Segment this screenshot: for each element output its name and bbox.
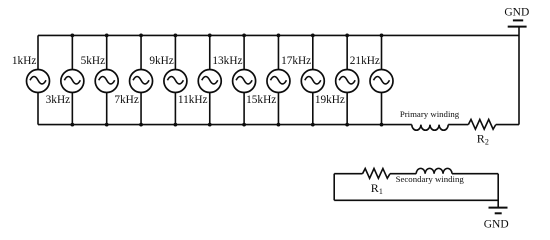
svg-text:13kHz: 13kHz bbox=[212, 55, 242, 67]
svg-text:3kHz: 3kHz bbox=[46, 94, 70, 106]
junction dot bottom rail V11 bbox=[380, 123, 384, 127]
AC source V2 (3kHz) bbox=[61, 35, 84, 124]
wire R2 to corner bbox=[496, 124, 519, 126]
junction dot top rail V7 bbox=[242, 34, 246, 38]
resistor R2 bbox=[468, 119, 496, 129]
svg-text:1kHz: 1kHz bbox=[12, 55, 36, 67]
svg-text:7kHz: 7kHz bbox=[114, 94, 138, 106]
AC source V4 (7kHz) bbox=[130, 35, 153, 124]
AC source V8 (15kHz) bbox=[267, 35, 290, 124]
svg-text:R2: R2 bbox=[477, 131, 489, 146]
svg-text:Secondary winding: Secondary winding bbox=[396, 174, 465, 184]
junction dot top rail V5 bbox=[174, 34, 178, 38]
junction dot bottom rail V6 bbox=[208, 123, 212, 127]
wire right vertical bbox=[518, 27, 520, 125]
junction dot bottom rail V3 bbox=[105, 123, 109, 127]
AC source V7 (13kHz) bbox=[233, 35, 256, 124]
AC source V11 (21kHz) bbox=[370, 35, 393, 124]
svg-text:17kHz: 17kHz bbox=[281, 55, 311, 67]
junction dot top rail V3 bbox=[105, 34, 109, 38]
wire top rail bbox=[38, 34, 519, 36]
svg-text:15kHz: 15kHz bbox=[246, 94, 276, 106]
svg-text:21kHz: 21kHz bbox=[350, 55, 380, 67]
svg-text:GND: GND bbox=[484, 219, 509, 231]
wire L2 to loop right bbox=[452, 173, 498, 175]
junction dot bottom rail V7 bbox=[242, 123, 246, 127]
AC source V10 (19kHz) bbox=[336, 35, 359, 124]
inductor L2 secondary winding bbox=[416, 168, 452, 173]
resistor R1 bbox=[363, 169, 391, 179]
svg-text:Primary winding: Primary winding bbox=[400, 109, 460, 119]
junction dot bottom rail V8 bbox=[277, 123, 281, 127]
svg-text:GND: GND bbox=[504, 6, 529, 18]
AC source V6 (11kHz) bbox=[198, 35, 221, 124]
junction dot bottom rail V5 bbox=[174, 123, 178, 127]
junction dot top rail V11 bbox=[380, 34, 384, 38]
junction dot top rail V8 bbox=[277, 34, 281, 38]
junction dot bottom rail V9 bbox=[311, 123, 315, 127]
ground bottom bbox=[489, 208, 508, 214]
junction dot bottom rail V2 bbox=[70, 123, 74, 127]
svg-text:9kHz: 9kHz bbox=[149, 55, 173, 67]
inductor L1 primary winding bbox=[412, 125, 448, 131]
junction dot top rail V2 bbox=[70, 34, 74, 38]
junction dot top rail V10 bbox=[345, 34, 349, 38]
wire R1 to L2 bbox=[390, 173, 416, 175]
AC source V5 (9kHz) bbox=[164, 35, 187, 124]
svg-text:19kHz: 19kHz bbox=[315, 94, 345, 106]
junction dot bottom rail V10 bbox=[345, 123, 349, 127]
junction dot top rail V9 bbox=[311, 34, 315, 38]
wire bottom rail bbox=[38, 124, 412, 126]
AC source V9 (17kHz) bbox=[301, 35, 324, 124]
AC source V3 (5kHz) bbox=[95, 35, 118, 124]
junction dot bottom rail V4 bbox=[139, 123, 143, 127]
svg-text:11kHz: 11kHz bbox=[178, 94, 208, 106]
wire secondary top left segment bbox=[334, 173, 362, 175]
junction dot top rail V4 bbox=[139, 34, 143, 38]
svg-text:R1: R1 bbox=[371, 181, 383, 196]
junction dot top rail V6 bbox=[208, 34, 212, 38]
wire secondary loop bottom side bbox=[334, 199, 498, 201]
wire secondary loop right side bbox=[497, 174, 499, 208]
wire between L1 and R2 bbox=[448, 124, 468, 126]
AC source V1 (1kHz) bbox=[27, 35, 50, 124]
ground top bbox=[508, 20, 527, 26]
wire secondary loop left side bbox=[333, 174, 335, 201]
svg-text:5kHz: 5kHz bbox=[81, 55, 105, 67]
